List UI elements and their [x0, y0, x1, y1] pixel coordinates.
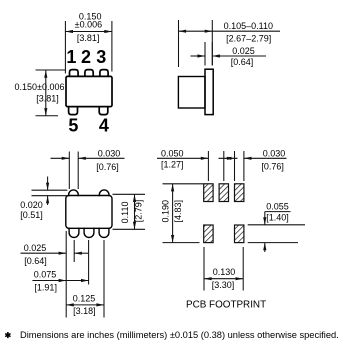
lead pin3 (top view): [100, 70, 108, 77]
svg-text:[0.64]: [0.64]: [231, 57, 254, 67]
dimension line left tail: [157, 157, 208, 159]
lead bump bottom 1: [69, 228, 79, 238]
arrowhead pointing left: [66, 303, 74, 306]
dimension 0.025 [0.64] (body edge to lead1 center): [21, 231, 89, 318]
pad 5: [204, 225, 213, 243]
arrowhead down: [44, 108, 47, 116]
dimension line: [66, 304, 104, 306]
pad 4: [235, 225, 244, 243]
arrowhead pointing left at pad3 right: [244, 157, 252, 160]
arrowhead pointing left: [212, 54, 220, 57]
arrowhead right: [236, 277, 244, 280]
dimension 0.020 [0.51] (bump protrusion): [32, 177, 68, 206]
extension line left: [178, 20, 180, 67]
leader drop: [264, 212, 266, 225]
arrowhead pointing down: [46, 183, 49, 191]
arrowhead pointing right at pad1: [201, 157, 209, 160]
svg-text:[2.67–2.79]: [2.67–2.79]: [226, 34, 271, 44]
arrowhead up: [171, 184, 174, 192]
arrowhead pointing right: [96, 303, 104, 306]
pad 1: [204, 184, 213, 202]
extension line pad2 center: [223, 151, 225, 181]
arrowhead down: [133, 222, 136, 230]
dimension line: [179, 30, 281, 32]
arrow tail below: [264, 243, 266, 252]
svg-text:[0.64]: [0.64]: [24, 256, 47, 266]
extension line left: [203, 247, 205, 291]
svg-text:0.125: 0.125: [73, 294, 96, 304]
lead (side view): [205, 69, 213, 114]
svg-text:0.075: 0.075: [34, 270, 57, 280]
dimension 0.055 [1.40] (bottom pad height): [248, 212, 305, 252]
arrowhead pointing right at pad3 left: [227, 157, 235, 160]
lead pin1 (top view): [70, 70, 79, 77]
package body (top view): [66, 76, 112, 106]
svg-text:4: 4: [99, 115, 109, 135]
svg-text:3: 3: [96, 47, 106, 67]
extension line pad3 right: [243, 151, 245, 181]
dimension line right tail: [74, 252, 88, 254]
svg-text:[3.81]: [3.81]: [36, 93, 59, 103]
arrowhead pointing right at body edge: [59, 279, 67, 282]
svg-text:1: 1: [66, 47, 76, 67]
arrowhead down: [171, 235, 174, 243]
svg-text:5: 5: [68, 115, 78, 135]
arrowhead pointing right: [59, 252, 67, 255]
dimension 0.150 +/-0.006 [3.81] horizontal (top view width): [65, 21, 112, 73]
package body (bottom view): [66, 196, 112, 229]
pad 3: [235, 184, 244, 202]
svg-text:2: 2: [81, 47, 91, 67]
extension line left: [204, 42, 206, 66]
extension line pad3 left: [234, 151, 236, 181]
svg-text:0.130: 0.130: [213, 267, 236, 277]
leader underline: [265, 211, 291, 213]
svg-text:0.030: 0.030: [263, 148, 286, 158]
extension line right: [242, 247, 244, 291]
arrowhead pointing down: [263, 217, 266, 225]
svg-text:[2.79]: [2.79]: [134, 200, 144, 223]
lead pin2 (top view): [85, 70, 93, 77]
extension line pad1 center: [207, 151, 209, 181]
extension line right: [111, 21, 113, 72]
extension line right: [211, 20, 213, 66]
extension line bottom: [248, 242, 298, 244]
svg-text:0.050: 0.050: [161, 148, 184, 158]
svg-text:0.025: 0.025: [24, 243, 47, 253]
arrowhead pointing up: [46, 196, 49, 204]
svg-text:0.030: 0.030: [98, 148, 121, 158]
dimension 0.150 +/-0.006 [3.81] vertical (top view height): [36, 70, 67, 116]
arrowhead left: [204, 277, 212, 280]
dimension line right tail: [212, 55, 266, 57]
extension line left: [68, 152, 70, 190]
extension line lead1 center: [73, 240, 75, 262]
svg-text:0.055: 0.055: [266, 202, 289, 212]
lead pin4 (top view): [99, 106, 108, 115]
svg-text:[1.27]: [1.27]: [161, 159, 184, 169]
dimension line: [65, 31, 112, 33]
arrowhead pointing up: [263, 243, 266, 251]
arrowhead pointing right: [197, 54, 205, 57]
arrowhead right: [104, 30, 112, 33]
dimension line left tail: [21, 252, 67, 254]
dimension 0.125 [3.18] (body edge to lead3 center): [66, 240, 104, 318]
extension line lead2 center: [88, 240, 90, 285]
dimension 0.075 [1.91] (body edge to lead2 center): [32, 240, 88, 285]
package body (side view): [178, 77, 205, 109]
arrow tail above: [47, 177, 49, 191]
arrowhead pointing left: [74, 252, 82, 255]
dimension 0.190 [4.83] (footprint overall height): [163, 184, 204, 243]
extension line top: [248, 224, 305, 226]
dimension line left tail: [191, 55, 206, 57]
dimension 0.025 [0.64] (lead thickness side view): [191, 42, 267, 66]
extension line bottom: [113, 228, 146, 230]
svg-text:0.190: 0.190: [160, 200, 170, 223]
extension line upper: [32, 189, 68, 191]
dimension line middle tail: [219, 157, 238, 159]
arrowhead pointing right at lead2: [81, 279, 89, 282]
extension line bottom: [36, 115, 59, 117]
svg-text:0.105–0.110: 0.105–0.110: [224, 21, 273, 31]
arrow tail below: [47, 196, 49, 205]
lead bump bottom 2: [84, 228, 94, 238]
extension line right: [77, 152, 79, 190]
extension line lead3 center: [103, 240, 105, 318]
dimension 0.130 [3.30] (bottom pads outer span): [204, 247, 243, 291]
dimension 0.105-0.110 [2.67-2.79] (overall width side view): [179, 20, 281, 67]
arrowhead left: [179, 30, 187, 33]
arrowhead up: [44, 70, 47, 78]
lead bump top-right (pin 4 side): [99, 190, 109, 196]
pad 2: [219, 184, 228, 202]
svg-text:[3.30]: [3.30]: [212, 280, 235, 290]
svg-text:0.110: 0.110: [120, 201, 130, 223]
dimension 0.110 [2.79] (body height, bottom view): [113, 194, 146, 229]
extension line left: [64, 21, 66, 73]
svg-text:[3.18]: [3.18]: [73, 306, 96, 316]
svg-text:[3.81]: [3.81]: [77, 33, 100, 43]
dimension 0.050 [1.27] (pad pitch): [157, 151, 238, 181]
svg-text:±0.006: ±0.006: [75, 20, 102, 30]
arrowhead pointing left: [78, 157, 86, 160]
dimension line: [45, 70, 47, 116]
svg-text:[0.76]: [0.76]: [96, 162, 119, 172]
svg-text:[1.40]: [1.40]: [266, 212, 289, 222]
extension line bottom: [163, 242, 200, 244]
svg-text:✱: ✱: [5, 331, 12, 340]
svg-text:[0.76]: [0.76]: [261, 162, 284, 172]
dimension line right tail: [244, 157, 287, 159]
arrowhead up: [133, 194, 136, 202]
dimension line: [172, 184, 174, 243]
svg-text:[0.51]: [0.51]: [20, 210, 43, 220]
arrowhead right: [205, 30, 213, 33]
extension line top: [36, 69, 67, 71]
dimension line left tail: [51, 157, 70, 159]
dimension line right tail: [78, 157, 124, 159]
svg-text:0.150±0.006: 0.150±0.006: [15, 82, 65, 92]
svg-text:Dimensions are inches (millime: Dimensions are inches (millimeters) ±0.0…: [20, 330, 339, 340]
dimension line: [32, 280, 88, 282]
extension line lower: [32, 195, 68, 197]
svg-text:[1.91]: [1.91]: [34, 282, 57, 292]
arrowhead pointing right: [62, 157, 70, 160]
extension line top: [113, 193, 146, 195]
svg-text:PCB FOOTPRINT: PCB FOOTPRINT: [186, 300, 266, 311]
lead bump bottom 3: [99, 228, 109, 238]
lead pin5 (top view): [69, 106, 78, 115]
dimension 0.030 [0.76] (pad width): [235, 151, 287, 181]
lead bump top-left (pin 5 side): [69, 190, 79, 196]
arrowhead pointing left at pad2: [224, 157, 232, 160]
extension line top: [163, 183, 204, 185]
svg-text:0.020: 0.020: [20, 200, 43, 210]
extension line right: [211, 42, 213, 66]
dimension 0.030 [0.76] (lead width, bottom view): [51, 152, 125, 190]
svg-text:0.025: 0.025: [232, 46, 255, 56]
arrowhead left: [65, 30, 73, 33]
dimension line: [204, 278, 243, 280]
svg-text:[4.83]: [4.83]: [173, 200, 183, 223]
extension line body-left: [65, 231, 67, 318]
dimension line: [134, 194, 136, 229]
